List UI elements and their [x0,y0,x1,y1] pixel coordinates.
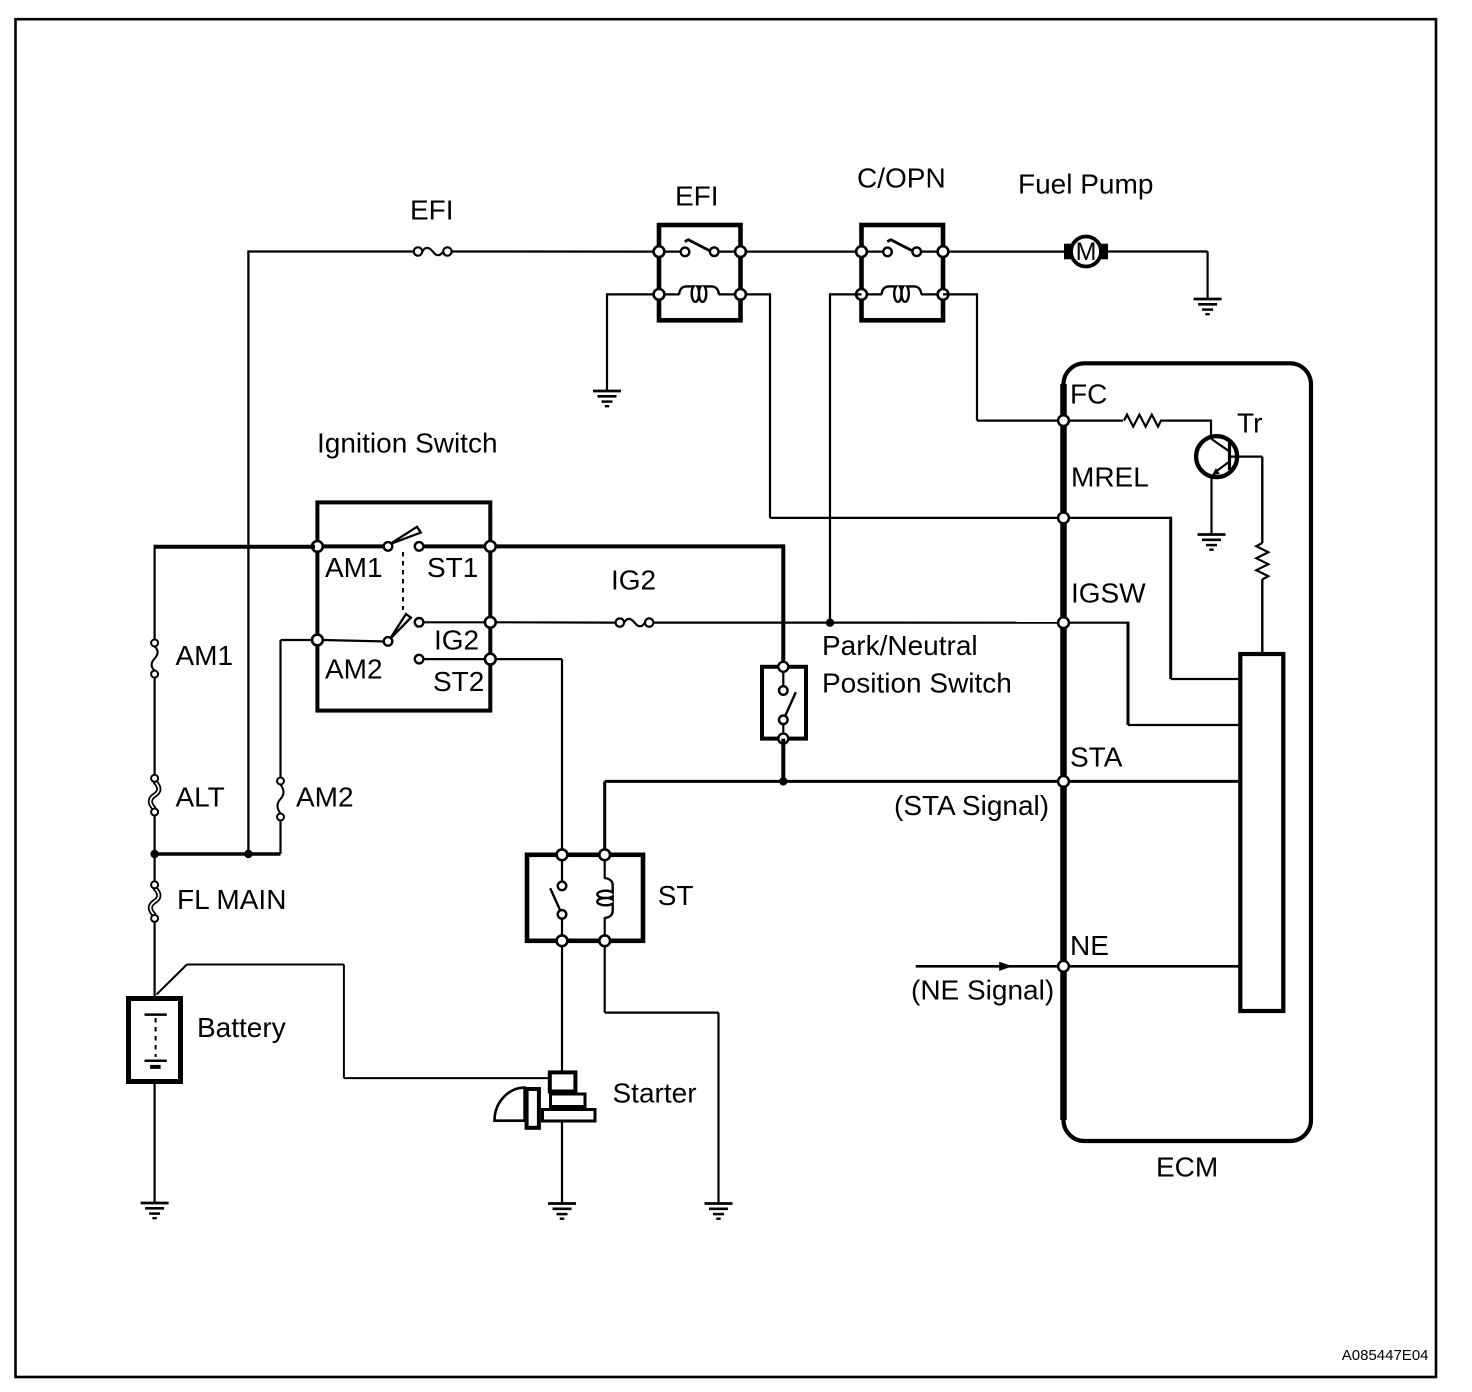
svg-text:A085447E04: A085447E04 [1342,1347,1429,1364]
svg-text:IGSW: IGSW [1071,577,1146,608]
svg-text:AM2: AM2 [296,782,354,813]
svg-text:EFI: EFI [675,180,719,211]
svg-text:ST2: ST2 [433,666,484,697]
svg-text:Starter: Starter [613,1077,697,1108]
svg-text:AM1: AM1 [176,640,234,671]
svg-text:IG2: IG2 [434,625,479,656]
svg-text:ST1: ST1 [427,552,478,583]
svg-text:IG2: IG2 [611,564,656,595]
svg-text:NE: NE [1070,930,1109,961]
svg-text:M: M [1076,238,1097,266]
svg-text:AM1: AM1 [325,552,383,583]
svg-text:FC: FC [1070,378,1107,409]
svg-text:ST: ST [658,880,694,911]
svg-text:Tr: Tr [1237,407,1262,438]
svg-text:C/OPN: C/OPN [857,162,946,193]
svg-text:(STA Signal): (STA Signal) [894,790,1049,821]
svg-text:Battery: Battery [197,1012,286,1043]
svg-text:FL MAIN: FL MAIN [177,884,286,915]
svg-text:ALT: ALT [176,782,225,813]
svg-text:EFI: EFI [410,194,454,225]
svg-text:Park/Neutral: Park/Neutral [822,630,978,661]
svg-text:AM2: AM2 [325,653,383,684]
svg-text:STA: STA [1070,741,1123,772]
svg-text:Fuel Pump: Fuel Pump [1018,168,1153,199]
svg-text:ECM: ECM [1156,1152,1218,1183]
svg-text:Ignition Switch: Ignition Switch [317,427,498,458]
svg-text:Position Switch: Position Switch [822,668,1012,699]
svg-text:(NE Signal): (NE Signal) [911,974,1054,1005]
svg-text:MREL: MREL [1071,461,1149,492]
